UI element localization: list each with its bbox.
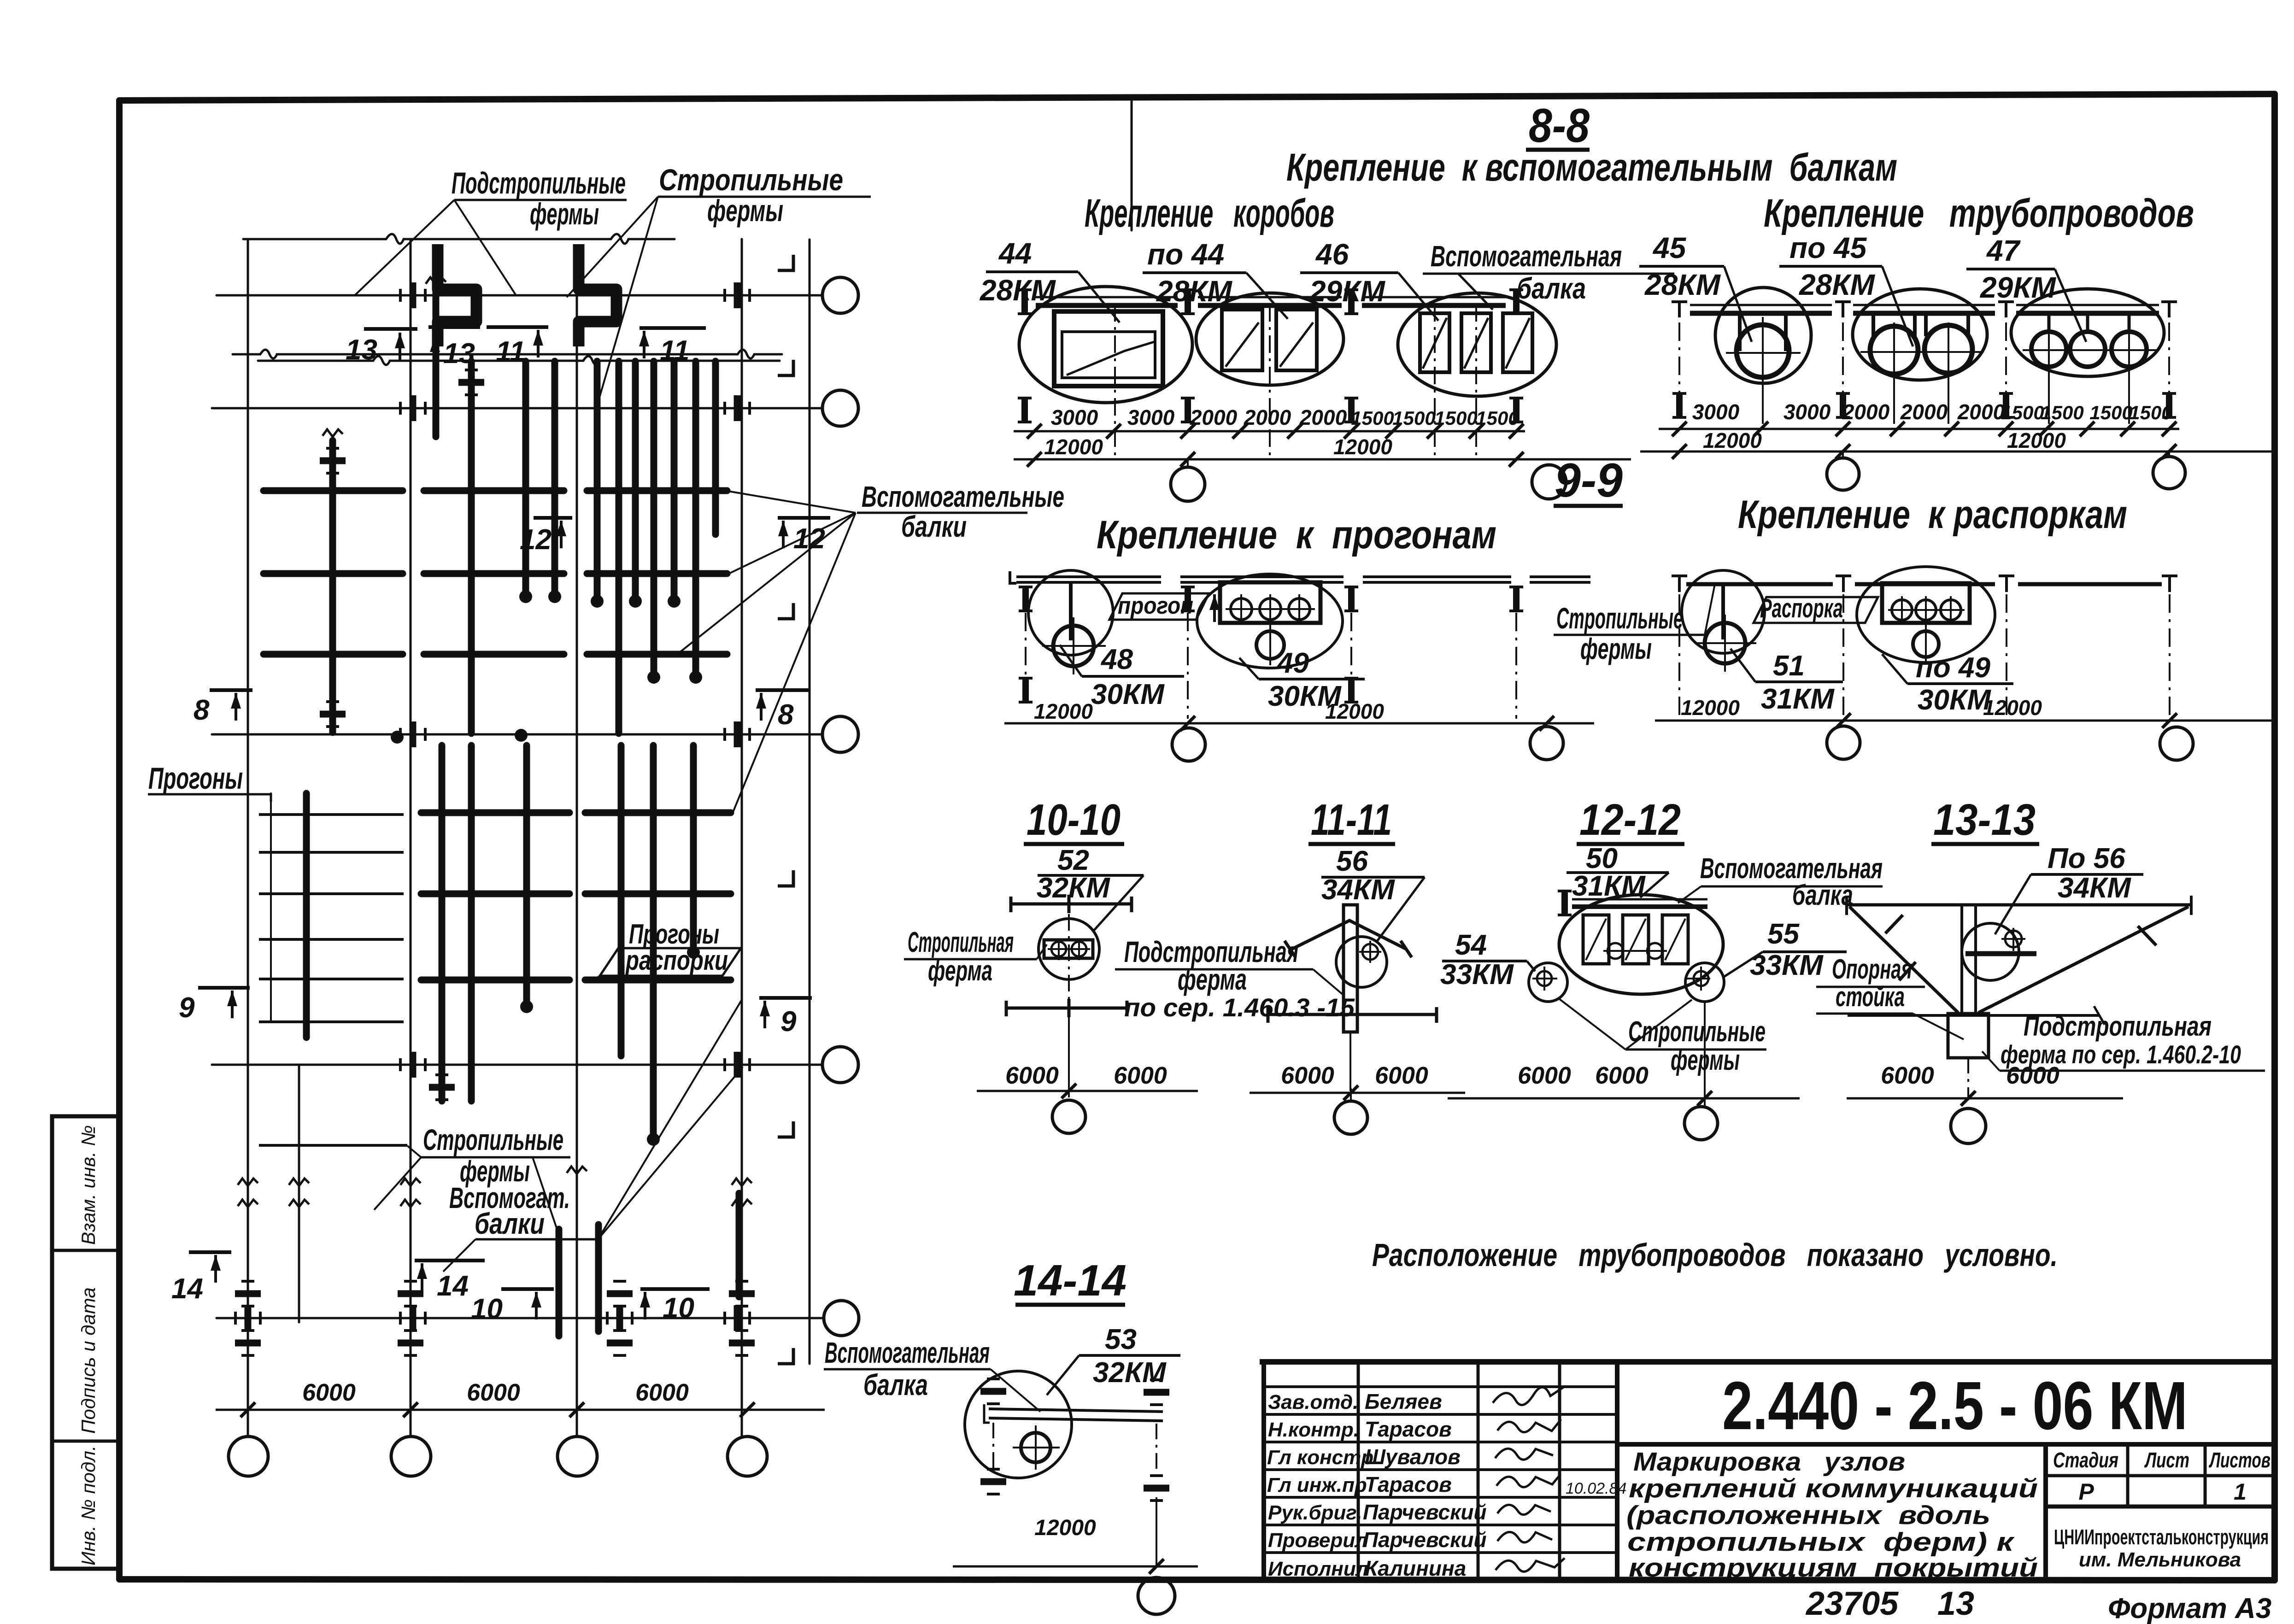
14-14 detail circle bbox=[965, 1371, 1072, 1478]
svg-text:Беляев: Беляев bbox=[1365, 1389, 1442, 1413]
truss bbox=[439, 745, 446, 1101]
svg-text:Взам. инв. №: Взам. инв. № bbox=[77, 1125, 99, 1245]
svg-text:стропильных ферм) к: стропильных ферм) к bbox=[1627, 1527, 2015, 1557]
13-13 bottom chord line bbox=[1848, 1014, 2099, 1017]
left strip divider 2 bbox=[52, 1440, 119, 1443]
dash-dot axes распоркам bbox=[1679, 594, 2170, 716]
svg-text:по 44: по 44 bbox=[1147, 238, 1224, 271]
aux beam row mid bbox=[421, 809, 569, 816]
axis row B upper line bbox=[233, 350, 782, 358]
svg-text:им. Мельникова: им. Мельникова bbox=[2079, 1548, 2241, 1571]
svg-text:Крепление к прогонам: Крепление к прогонам bbox=[1097, 513, 1496, 557]
truss bbox=[616, 361, 622, 733]
svg-text:фермы: фермы bbox=[707, 193, 783, 228]
svg-text:44: 44 bbox=[998, 237, 1032, 270]
svg-text:12000: 12000 bbox=[2007, 428, 2066, 452]
aux beam row bbox=[264, 651, 403, 658]
svg-text:Подстропильные: Подстропильные bbox=[452, 166, 626, 200]
svg-text:12: 12 bbox=[793, 523, 825, 555]
axis circles коробов bbox=[1187, 459, 1189, 467]
Г marks on right margin bbox=[778, 255, 793, 270]
svg-text:6000: 6000 bbox=[1375, 1062, 1428, 1089]
truss bbox=[468, 745, 475, 1101]
svg-text:34КМ: 34КМ bbox=[1321, 874, 1395, 906]
purlins bay A-B bbox=[259, 815, 407, 1145]
svg-text:2000: 2000 bbox=[1244, 405, 1291, 429]
14-14 pipe circle bbox=[1021, 1433, 1050, 1462]
truss bbox=[671, 361, 678, 599]
13-13 support base bbox=[1948, 1014, 1989, 1058]
svg-text:12000: 12000 bbox=[1034, 699, 1093, 723]
dim line 1 коробов bbox=[1014, 430, 1525, 433]
svg-text:Расположение трубопроводов: Расположение трубопроводов показано усло… bbox=[1372, 1237, 2058, 1273]
truss middle band bbox=[303, 793, 310, 1038]
svg-text:Гл констр: Гл констр bbox=[1267, 1446, 1373, 1469]
svg-text:по 49: по 49 bbox=[1916, 652, 1990, 684]
45 hanger bbox=[1740, 315, 1786, 351]
detail по45 ellipse bbox=[1853, 289, 1987, 380]
svg-text:49: 49 bbox=[1276, 647, 1309, 679]
axis circles right side bbox=[229, 277, 859, 1476]
распоркам row beam bbox=[1686, 582, 2162, 586]
svg-text:31КМ: 31КМ bbox=[1761, 683, 1835, 715]
49 pipe below bbox=[1256, 631, 1284, 659]
svg-text:ферма: ферма bbox=[1178, 963, 1247, 996]
svg-text:13: 13 bbox=[1937, 1585, 1974, 1622]
beams трубопроводов group bbox=[1690, 305, 2159, 313]
border frame bbox=[119, 94, 2275, 100]
svg-text:12000: 12000 bbox=[1333, 435, 1392, 459]
49 plate bbox=[1220, 582, 1320, 623]
aux beams thick horizontals bbox=[264, 491, 731, 980]
svg-text:Стропильная: Стропильная bbox=[908, 926, 1014, 958]
svg-text:13: 13 bbox=[346, 334, 377, 366]
svg-text:6000: 6000 bbox=[1518, 1062, 1571, 1089]
svg-text:ЦНИИпроектстальконструкция: ЦНИИпроектстальконструкция bbox=[2054, 1525, 2269, 1549]
по49 bolts bbox=[1888, 596, 1965, 624]
svg-text:32КМ: 32КМ bbox=[1037, 872, 1110, 904]
truss bbox=[329, 440, 336, 733]
detail 48 circle bbox=[1028, 570, 1113, 655]
axis circles распоркам bbox=[1827, 726, 1860, 759]
axis row C line bbox=[212, 733, 822, 736]
plan right boundary vertical bbox=[809, 240, 811, 1364]
svg-text:Шувалов: Шувалов bbox=[1365, 1445, 1461, 1469]
svg-text:6000: 6000 bbox=[467, 1379, 520, 1406]
46 axis verticals bbox=[1434, 304, 1436, 461]
dim line распоркам bbox=[1655, 720, 2274, 722]
svg-text:Крепление к распоркам: Крепление к распоркам bbox=[1738, 492, 2127, 537]
break marks on column axes bbox=[238, 1178, 258, 1186]
truss stub right axis bbox=[736, 1193, 743, 1297]
svg-text:50: 50 bbox=[1586, 843, 1618, 874]
svg-text:29КМ: 29КМ bbox=[1980, 271, 2057, 304]
svg-text:Тарасов: Тарасов bbox=[1365, 1417, 1452, 1441]
svg-text:Инв. № подл.: Инв. № подл. bbox=[77, 1445, 99, 1565]
svg-text:51: 51 bbox=[1773, 650, 1805, 682]
truss stub bottom left bbox=[556, 1229, 563, 1336]
по45 hangers bbox=[1873, 315, 1968, 336]
по45 pipe circles bbox=[1870, 326, 1918, 374]
truss bbox=[651, 361, 657, 675]
svg-text:12000: 12000 bbox=[1983, 696, 2042, 720]
13-13 inner bar bbox=[1965, 951, 2036, 956]
truss bbox=[433, 287, 440, 437]
12-12 axis to dim bbox=[1704, 1002, 1706, 1106]
svg-text:34КМ: 34КМ bbox=[2058, 872, 2131, 904]
dim line 1 трубопроводов bbox=[1659, 428, 2179, 430]
svg-text:32КМ: 32КМ bbox=[1093, 1357, 1167, 1389]
svg-text:Крепление трубопроводов: Крепление трубопроводов bbox=[1764, 191, 2194, 235]
svg-text:14-14: 14-14 bbox=[1014, 1256, 1126, 1305]
12-12 bolts between ducts bbox=[1608, 943, 1623, 959]
dash-dot axes трубопроводов bbox=[1679, 322, 2169, 420]
truss bbox=[692, 361, 699, 675]
svg-text:45: 45 bbox=[1652, 231, 1687, 264]
duct S-shape 1 bbox=[438, 244, 476, 346]
svg-text:13: 13 bbox=[443, 338, 475, 369]
svg-text:Зав.отд.: Зав.отд. bbox=[1268, 1391, 1358, 1413]
aux beam row mid bbox=[421, 891, 569, 897]
I symbols трубопроводов row bbox=[1672, 302, 1687, 317]
svg-text:10: 10 bbox=[471, 1293, 503, 1325]
10-10 bolts bbox=[1048, 939, 1090, 960]
svg-text:Парчевский: Парчевский bbox=[1363, 1500, 1487, 1524]
truss bbox=[690, 745, 697, 950]
47 pipe circles bbox=[2031, 332, 2066, 367]
svg-text:(расположенных вдоль: (расположенных вдоль bbox=[1626, 1501, 1990, 1530]
svg-text:14: 14 bbox=[171, 1273, 203, 1305]
svg-text:6000: 6000 bbox=[1281, 1062, 1334, 1089]
48 pipe circle bbox=[1053, 626, 1094, 666]
svg-text:6000: 6000 bbox=[302, 1379, 356, 1406]
purlin leader vertical bbox=[270, 793, 272, 1022]
svg-text:10: 10 bbox=[663, 1292, 694, 1324]
signature table outer verticals bbox=[1261, 1362, 1266, 1579]
detail 44 duct box bbox=[1054, 311, 1163, 386]
svg-text:48: 48 bbox=[1100, 644, 1133, 675]
svg-text:Стропильные: Стропильные bbox=[423, 1123, 563, 1156]
truss bbox=[632, 361, 639, 599]
svg-text:33КМ: 33КМ bbox=[1440, 959, 1514, 991]
axis row B line bbox=[212, 407, 822, 410]
10-10 axis to dim bbox=[1068, 1017, 1070, 1097]
svg-text:Н.контр.: Н.контр. bbox=[1268, 1419, 1359, 1441]
11-11 vertical truss bar bbox=[1344, 905, 1357, 1032]
fold mark top center bbox=[1131, 99, 1133, 230]
left strip divider 1 bbox=[52, 1249, 119, 1252]
stage header row line bbox=[2046, 1474, 2275, 1477]
svg-text:10.02.84: 10.02.84 bbox=[1566, 1480, 1626, 1497]
по44 duct boxes bbox=[1222, 310, 1317, 370]
svg-text:53: 53 bbox=[1105, 1324, 1137, 1355]
dims трубопроводов texts bbox=[1692, 400, 2172, 424]
leaders fan from Вспомогательные балки bbox=[677, 491, 856, 813]
svg-text:балка: балка bbox=[1792, 879, 1853, 911]
12-12 small circle left bbox=[1529, 963, 1567, 1002]
leaders bottom left labels bbox=[374, 1000, 743, 1272]
svg-text:Крепление к вспомогательным: Крепление к вспомогательным балкам bbox=[1286, 146, 1897, 189]
svg-text:1500: 1500 bbox=[2089, 402, 2132, 423]
svg-text:9: 9 bbox=[780, 1006, 797, 1038]
svg-text:6000: 6000 bbox=[1005, 1062, 1059, 1089]
dim line 2 трубопроводов bbox=[1640, 451, 2271, 453]
svg-text:2000: 2000 bbox=[1190, 405, 1238, 429]
svg-text:28КМ: 28КМ bbox=[1799, 268, 1876, 301]
detail 45 circle bbox=[1715, 287, 1811, 383]
svg-text:56: 56 bbox=[1336, 845, 1368, 877]
truss bbox=[594, 361, 601, 599]
svg-text:Вспомогательные: Вспомогательные bbox=[862, 480, 1064, 513]
svg-text:10-10: 10-10 bbox=[1027, 795, 1121, 844]
13-13 detail circle bbox=[1962, 923, 2019, 980]
svg-text:Вспомогательная: Вспомогательная bbox=[1700, 853, 1883, 885]
svg-text:Листов: Листов bbox=[2209, 1448, 2271, 1472]
svg-text:3000: 3000 bbox=[1692, 400, 1740, 424]
svg-text:2000: 2000 bbox=[1900, 400, 1948, 424]
left attachment strip outer box bbox=[52, 1116, 119, 1569]
dim line 2 коробов bbox=[1014, 458, 1631, 461]
svg-text:30КМ: 30КМ bbox=[1918, 684, 1991, 716]
10-10 detail circle bbox=[1038, 919, 1099, 979]
svg-text:Стропильные: Стропильные bbox=[659, 163, 843, 197]
svg-text:3000: 3000 bbox=[1051, 405, 1098, 429]
svg-text:прогон: прогон bbox=[1118, 592, 1193, 619]
stacked I symbols at bottoms of columns bbox=[235, 1281, 261, 1306]
bottom axis circles bbox=[229, 1436, 268, 1476]
svg-text:54: 54 bbox=[1455, 929, 1487, 961]
svg-text:6000: 6000 bbox=[635, 1379, 689, 1406]
svg-text:3000: 3000 bbox=[1127, 405, 1175, 429]
svg-text:Проверил: Проверил bbox=[1268, 1529, 1367, 1552]
svg-text:9-9: 9-9 bbox=[1555, 454, 1623, 507]
svg-text:по сер. 1.460.3 -15: по сер. 1.460.3 -15 bbox=[1124, 993, 1355, 1022]
svg-text:55: 55 bbox=[1767, 918, 1800, 950]
12-12 beam top bbox=[1572, 898, 1707, 901]
svg-text:2.440 - 2.5 - 06 КМ: 2.440 - 2.5 - 06 КМ bbox=[1722, 1368, 2188, 1444]
svg-text:11-11: 11-11 bbox=[1311, 795, 1392, 844]
10-10 lower bracket bbox=[1006, 999, 1127, 1017]
14-14 beam bbox=[989, 1409, 1163, 1412]
leaders from Подстропильные bbox=[355, 200, 454, 295]
bottom dimension line bbox=[216, 1409, 825, 1411]
svg-text:Калинина: Калинина bbox=[1365, 1556, 1466, 1580]
по49 pipe below bbox=[1913, 631, 1939, 657]
svg-text:распорки: распорки bbox=[625, 945, 728, 976]
10-10 center axis dashed bbox=[1068, 914, 1070, 1007]
svg-text:6000: 6000 bbox=[1881, 1062, 1934, 1089]
duct S-shape 2 bbox=[579, 244, 616, 346]
51 pipe bbox=[1705, 623, 1745, 663]
truss bbox=[551, 361, 558, 594]
svg-text:23705: 23705 bbox=[1805, 1585, 1899, 1622]
axis circles трубопроводов bbox=[1842, 451, 1844, 458]
12-12 ducts bbox=[1583, 915, 1688, 964]
beams коробов group bbox=[1036, 297, 1506, 305]
svg-text:Тарасов: Тарасов bbox=[1365, 1472, 1452, 1496]
stage cells vertical split from name cell bbox=[2043, 1444, 2048, 1579]
10-10 top bracket bbox=[1011, 895, 1132, 913]
12-12 I symbol left bbox=[1558, 891, 1572, 915]
detail 49 ellipse bbox=[1197, 574, 1343, 668]
aux thin vertical in bay A-B bottom bbox=[298, 1065, 300, 1322]
column axis 1 vertical bbox=[247, 239, 249, 1436]
svg-text:2000: 2000 bbox=[1957, 400, 2005, 424]
stage value row bottom bbox=[2046, 1505, 2275, 1509]
plan band top line bbox=[258, 356, 780, 365]
svg-text:1500: 1500 bbox=[2129, 402, 2172, 423]
section marks in plan bbox=[189, 327, 830, 1289]
aux beam row mid bbox=[421, 977, 569, 984]
axis row F bottom line bbox=[217, 1317, 822, 1319]
dash-dot axes прогонам bbox=[1026, 613, 1516, 719]
svg-text:1500: 1500 bbox=[2041, 402, 2083, 423]
svg-text:балка: балка bbox=[1517, 272, 1586, 305]
detail по44 ellipse bbox=[1196, 293, 1344, 385]
svg-text:8: 8 bbox=[778, 699, 794, 731]
11-11 detail circle bbox=[1336, 937, 1387, 987]
I symbols коробов row bbox=[1018, 290, 1032, 314]
svg-text:8-8: 8-8 bbox=[1529, 99, 1590, 152]
truss bbox=[618, 745, 625, 1056]
svg-text:13-13: 13-13 bbox=[1933, 795, 2036, 844]
прогонам row beam bbox=[1010, 571, 1590, 583]
svg-text:Подпись и дата: Подпись и дата bbox=[77, 1287, 99, 1434]
45 pipe circle bbox=[1737, 325, 1789, 377]
11-11 lower bracket bbox=[1268, 1007, 1437, 1023]
aux beam row bbox=[264, 570, 403, 577]
I symbols прогонам row bbox=[1019, 587, 1033, 611]
truss bbox=[522, 361, 529, 594]
truss bbox=[712, 361, 719, 534]
truss end dots bbox=[391, 590, 702, 1146]
13-13 vertical post bbox=[1960, 905, 1963, 1014]
svg-text:по 45: по 45 bbox=[1789, 231, 1867, 264]
detail 44 ellipse bbox=[1019, 287, 1192, 403]
11-11 bolt bbox=[1362, 944, 1378, 960]
49 bolts bbox=[1226, 594, 1315, 624]
по44 axis vertical bbox=[1269, 304, 1271, 461]
truss stub bottom right bbox=[595, 1225, 602, 1331]
signature table row lines bbox=[1264, 1385, 1617, 1388]
signatures squiggles bbox=[1493, 1387, 1565, 1571]
aux beam row bbox=[264, 487, 403, 494]
svg-text:2000: 2000 bbox=[1842, 400, 1890, 424]
svg-text:конструкциям покрытий: конструкциям покрытий bbox=[1629, 1553, 2038, 1583]
svg-text:9: 9 bbox=[179, 992, 195, 1024]
svg-text:Крепление коробов: Крепление коробов bbox=[1085, 191, 1334, 235]
12-12 small circle right bbox=[1685, 963, 1724, 1002]
13-13 bolt bbox=[2005, 931, 2022, 947]
svg-text:Опорная: Опорная bbox=[1832, 954, 1912, 985]
truss bbox=[650, 745, 657, 1137]
svg-text:1500: 1500 bbox=[2001, 402, 2044, 423]
47 hangers bbox=[2049, 314, 2129, 334]
stage header verticals bbox=[2126, 1444, 2130, 1507]
column axis 2 vertical bbox=[410, 239, 412, 1436]
13-13 truss top chord bbox=[1847, 903, 2191, 907]
svg-text:14: 14 bbox=[437, 1270, 469, 1302]
svg-text:6000: 6000 bbox=[1595, 1062, 1649, 1089]
svg-text:12000: 12000 bbox=[1681, 696, 1740, 720]
title block top heavy line bbox=[1262, 1359, 2275, 1365]
axis row D line bbox=[212, 1064, 822, 1066]
svg-text:фермы: фермы bbox=[530, 197, 599, 231]
svg-text:Стадия: Стадия bbox=[2053, 1448, 2118, 1472]
10-10 plate bbox=[1044, 940, 1093, 958]
svg-text:11: 11 bbox=[660, 335, 689, 367]
column axis 4 vertical bbox=[741, 239, 743, 1436]
svg-text:Маркировка узлов: Маркировка узлов bbox=[1633, 1447, 1905, 1477]
svg-text:12000: 12000 bbox=[1034, 1516, 1096, 1540]
14-14 dash-dot axes bbox=[993, 1423, 1156, 1479]
svg-text:Прогоны: Прогоны bbox=[148, 761, 243, 795]
svg-text:Рук.бриг.: Рук.бриг. bbox=[1268, 1501, 1362, 1524]
signature table column lines bbox=[1357, 1362, 1360, 1579]
svg-text:28КМ: 28КМ bbox=[1644, 268, 1721, 301]
svg-text:2000: 2000 bbox=[1299, 405, 1347, 429]
svg-text:46: 46 bbox=[1315, 238, 1349, 271]
svg-text:балка: балка bbox=[863, 1368, 928, 1401]
svg-text:балки: балки bbox=[901, 510, 967, 543]
detail 44 axis vertical bbox=[1114, 304, 1116, 461]
svg-text:креплений коммуникаций: креплений коммуникаций bbox=[1629, 1474, 2038, 1503]
13-13 truss diagonals bbox=[1849, 907, 2188, 1013]
column axis 3 vertical bbox=[576, 276, 578, 1436]
dim line прогонам bbox=[1004, 722, 1594, 725]
svg-text:Вспомогательная: Вспомогательная bbox=[825, 1336, 990, 1369]
svg-text:12000: 12000 bbox=[1325, 699, 1384, 723]
svg-text:6000: 6000 bbox=[1114, 1062, 1167, 1089]
svg-text:Парчевский: Парчевский bbox=[1363, 1528, 1487, 1552]
svg-text:Гл инж.пр: Гл инж.пр bbox=[1267, 1474, 1367, 1496]
svg-text:фермы: фермы bbox=[1580, 632, 1652, 665]
11-11 roof diagonals bbox=[1285, 920, 1412, 957]
truss bbox=[468, 361, 475, 733]
46 duct boxes bbox=[1420, 313, 1532, 372]
svg-text:12000: 12000 bbox=[1044, 435, 1103, 459]
12-12 ellipse bbox=[1559, 895, 1723, 994]
svg-text:Стропильные: Стропильные bbox=[1556, 602, 1683, 635]
svg-text:52: 52 bbox=[1057, 844, 1089, 876]
axis row A line bbox=[217, 294, 822, 297]
svg-text:По 56: По 56 bbox=[2048, 843, 2125, 874]
svg-text:12: 12 bbox=[520, 524, 551, 556]
svg-text:1: 1 bbox=[2234, 1479, 2247, 1505]
svg-text:12000: 12000 bbox=[1703, 428, 1762, 452]
svg-text:балки: балки bbox=[475, 1207, 545, 1240]
по49 plate bbox=[1882, 583, 1970, 623]
svg-text:Вспомогательная: Вспомогательная bbox=[1431, 240, 1622, 273]
svg-text:Подстропильная: Подстропильная bbox=[2024, 1011, 2212, 1042]
truss thick verticals upper band bbox=[306, 287, 739, 1336]
svg-text:Формат А3: Формат А3 bbox=[2108, 1593, 2271, 1624]
svg-text:Р: Р bbox=[2078, 1479, 2094, 1505]
svg-text:30КМ: 30КМ bbox=[1091, 679, 1165, 710]
svg-text:11: 11 bbox=[496, 336, 525, 368]
14-14 I symbols bbox=[980, 1379, 1006, 1404]
plan top edge line bbox=[243, 234, 675, 244]
svg-text:3000: 3000 bbox=[1784, 400, 1831, 424]
leaders from Стропильные top bbox=[567, 197, 658, 297]
detail 51 circle bbox=[1682, 570, 1765, 653]
doc number cell bottom line bbox=[1617, 1442, 2275, 1447]
dims коробов row texts bbox=[1051, 405, 1519, 429]
svg-text:6000: 6000 bbox=[2006, 1062, 2059, 1089]
detail 47 ellipse bbox=[2011, 289, 2164, 376]
svg-text:Исполнил: Исполнил bbox=[1268, 1558, 1368, 1580]
purlin bottom row thin bbox=[259, 1144, 407, 1147]
